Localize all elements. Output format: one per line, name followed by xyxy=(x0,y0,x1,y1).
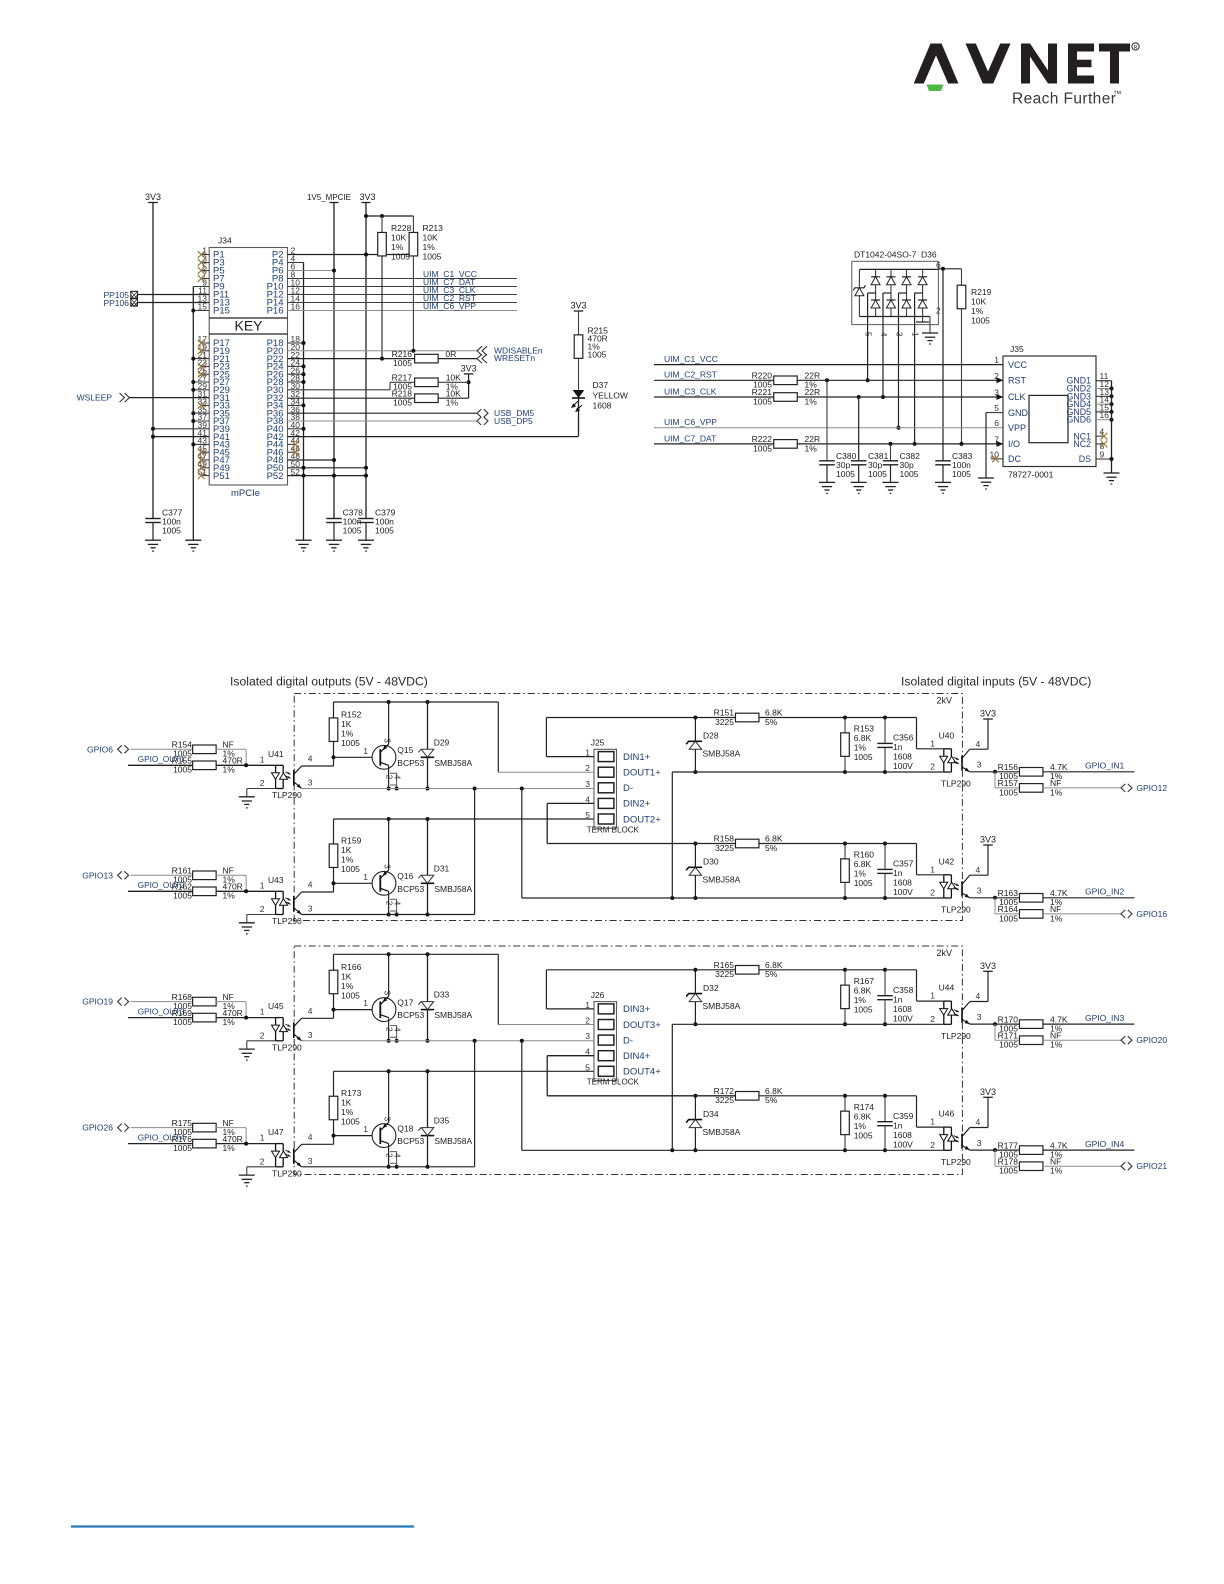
svg-text:5%: 5% xyxy=(765,843,778,853)
svg-text:UIM_C2_RST: UIM_C2_RST xyxy=(664,370,717,380)
svg-text:GND6: GND6 xyxy=(1067,415,1092,425)
resistor R219 10K xyxy=(961,269,963,286)
transistor Q15 BCP53 xyxy=(372,745,396,769)
terminal J26 pin 4 xyxy=(598,1051,614,1061)
net UIM_C1_VCC xyxy=(288,278,518,280)
svg-text:DIN3+: DIN3+ xyxy=(623,1004,651,1015)
svg-text:BCP53: BCP53 xyxy=(397,1136,424,1146)
TVS diode D29 SMBJ58A xyxy=(427,702,429,749)
svg-text:1%: 1% xyxy=(341,729,354,739)
svg-text:5: 5 xyxy=(585,810,590,820)
svg-text:J34: J34 xyxy=(218,236,232,246)
capacitor C378 100n xyxy=(326,518,342,520)
svg-text:P52: P52 xyxy=(267,471,284,482)
svg-text:1n: 1n xyxy=(893,1120,903,1130)
svg-text:1608: 1608 xyxy=(893,752,912,762)
svg-text:1K: 1K xyxy=(341,1097,352,1107)
capacitor C377 100n xyxy=(145,518,161,520)
svg-text:1005: 1005 xyxy=(173,1143,192,1153)
svg-text:3V3: 3V3 xyxy=(980,709,996,719)
svg-text:1K: 1K xyxy=(341,845,352,855)
diode pair column 4 in array xyxy=(922,269,924,276)
svg-text:4: 4 xyxy=(976,865,981,875)
net UIM_C2_RST / resistor R220 22R xyxy=(654,379,774,381)
terminal J25 pin 5 xyxy=(598,814,614,824)
terminal J26 pin 2 xyxy=(598,1020,614,1030)
svg-text:1005: 1005 xyxy=(999,787,1018,797)
svg-text:6.8K: 6.8K xyxy=(854,733,872,743)
svg-text:U43: U43 xyxy=(268,875,284,885)
svg-text:D37: D37 xyxy=(593,380,609,390)
svg-text:1005: 1005 xyxy=(343,526,362,536)
svg-text:R152: R152 xyxy=(341,710,362,720)
wire base node to Q17 xyxy=(334,1009,373,1011)
svg-text:RST: RST xyxy=(1008,376,1027,386)
svg-text:2: 2 xyxy=(260,904,265,914)
wire DIN2+ to input bus 2 xyxy=(547,802,594,804)
svg-text:SMBJ58A: SMBJ58A xyxy=(703,875,741,885)
wire DOUT3+ to output bus 3 xyxy=(498,1024,594,1026)
svg-text:GPIO_IN4: GPIO_IN4 xyxy=(1085,1139,1124,1149)
svg-text:GPIO_IN1: GPIO_IN1 xyxy=(1085,761,1124,771)
resistor R171 NF xyxy=(994,1024,996,1040)
svg-text:Q16: Q16 xyxy=(397,871,413,881)
svg-text:GPIO20: GPIO20 xyxy=(1136,1035,1167,1045)
svg-text:3: 3 xyxy=(308,904,313,914)
zener diode in array xyxy=(858,269,860,287)
wire input bus to opto pin1 xyxy=(899,717,917,719)
svg-text:J35: J35 xyxy=(1010,344,1024,354)
svg-text:C358: C358 xyxy=(893,985,914,995)
svg-text:GPIO12: GPIO12 xyxy=(1136,783,1167,793)
svg-text:GPIO_IN3: GPIO_IN3 xyxy=(1085,1013,1124,1023)
diode array D36 DT1042-04SO-7 body xyxy=(852,261,939,324)
svg-text:1%: 1% xyxy=(805,443,818,453)
svg-text:TLP290: TLP290 xyxy=(941,1157,971,1167)
capacitor C379 100n xyxy=(358,518,374,520)
net UIM_C3_CLK xyxy=(288,294,518,296)
svg-text:R159: R159 xyxy=(341,836,362,846)
TVS diode D35 SMBJ58A xyxy=(427,1071,429,1127)
svg-text:0R: 0R xyxy=(445,349,456,359)
svg-text:1005: 1005 xyxy=(999,913,1018,923)
svg-text:3V3: 3V3 xyxy=(980,961,996,971)
svg-text:D34: D34 xyxy=(703,1109,719,1119)
svg-text:1608: 1608 xyxy=(893,1130,912,1140)
wire 3V3 to pullups R228 R213 xyxy=(366,215,413,217)
wire P4 stub to bus xyxy=(288,262,304,264)
svg-text:1K: 1K xyxy=(341,971,352,981)
resistor R152 1K xyxy=(333,702,335,718)
resistor R164 NF xyxy=(994,898,996,914)
ground under J35 bus xyxy=(1104,473,1120,484)
svg-text:SMBJ58A: SMBJ58A xyxy=(434,758,472,768)
svg-text:YELLOW: YELLOW xyxy=(593,391,628,401)
resistor R165 6.8K series xyxy=(735,966,759,975)
ground under J35 pin5 xyxy=(978,478,994,489)
svg-text:Q15: Q15 xyxy=(397,745,413,755)
svg-text:1005: 1005 xyxy=(854,752,873,762)
svg-text:3: 3 xyxy=(308,778,313,788)
svg-text:2: 2 xyxy=(930,1140,935,1150)
svg-text:4: 4 xyxy=(976,1117,981,1127)
svg-text:TLP290: TLP290 xyxy=(941,905,971,915)
svg-text:1005: 1005 xyxy=(162,526,181,536)
svg-text:1%: 1% xyxy=(391,242,404,252)
svg-text:3: 3 xyxy=(383,991,392,996)
svg-text:GPIO21: GPIO21 xyxy=(1136,1161,1167,1171)
Avnet logo registered mark xyxy=(1132,43,1139,50)
svg-text:1005: 1005 xyxy=(753,396,772,406)
resistor R163 4.7K xyxy=(995,897,1020,899)
resistor R154 NF xyxy=(131,748,193,750)
ground under C377 xyxy=(145,540,161,551)
resistor R217 10K xyxy=(288,389,391,391)
svg-text:3V3: 3V3 xyxy=(461,363,477,373)
capacitor C359 1n 100V xyxy=(884,1096,886,1122)
svg-text:1: 1 xyxy=(260,1133,265,1143)
svg-text:DOUT3+: DOUT3+ xyxy=(623,1020,661,1031)
wire DIN3+ to input bus 3 xyxy=(546,1008,594,1010)
wire input bottom row 1 xyxy=(672,771,944,773)
svg-text:5%: 5% xyxy=(765,1095,778,1105)
svg-text:SMBJ58A: SMBJ58A xyxy=(703,1001,741,1011)
svg-text:1n: 1n xyxy=(893,868,903,878)
svg-text:1%: 1% xyxy=(1050,1166,1063,1176)
svg-text:1005: 1005 xyxy=(173,1017,192,1027)
ground for diode array pin2 xyxy=(922,317,924,323)
wire output top bus xyxy=(334,818,595,820)
wire WSLEEP to P31 xyxy=(130,397,210,399)
svg-text:1: 1 xyxy=(363,872,368,882)
svg-text:1%: 1% xyxy=(341,855,354,865)
svg-text:D35: D35 xyxy=(434,1116,450,1126)
svg-text:1005: 1005 xyxy=(753,443,772,453)
svg-text:6.8K: 6.8K xyxy=(854,1111,872,1121)
svg-text:R166: R166 xyxy=(341,962,362,972)
optocoupler U42 phototransistor xyxy=(961,881,963,896)
wire right ground bus xyxy=(303,263,305,541)
svg-text:1%: 1% xyxy=(854,995,867,1005)
net UIM_C2_RST xyxy=(288,302,518,304)
wire D- down to output channel 4 row xyxy=(474,1041,476,1167)
svg-text:1005: 1005 xyxy=(341,864,360,874)
svg-text:GPIO13: GPIO13 xyxy=(82,870,113,880)
resistor R228 xyxy=(381,216,383,233)
TVS diode D32 SMBJ58A xyxy=(694,970,696,994)
svg-text:10K: 10K xyxy=(391,233,406,243)
svg-text:1: 1 xyxy=(363,1124,368,1134)
resistor R157 NF xyxy=(994,772,996,788)
svg-text:1: 1 xyxy=(363,998,368,1008)
svg-text:GPIO16: GPIO16 xyxy=(1136,909,1167,919)
svg-text:6: 6 xyxy=(994,418,999,428)
svg-text:TERM BLOCK: TERM BLOCK xyxy=(587,825,640,834)
net WRESETn xyxy=(477,354,487,363)
svg-text:SMBJ58A: SMBJ58A xyxy=(703,749,741,759)
svg-text:SMBJ58A: SMBJ58A xyxy=(434,884,472,894)
svg-text:1%: 1% xyxy=(223,1143,236,1153)
wire P50 to 3V3 rail xyxy=(288,467,367,469)
resistor R218 10K xyxy=(288,397,415,399)
svg-text:GPIO26: GPIO26 xyxy=(82,1123,113,1133)
svg-text:1n: 1n xyxy=(893,742,903,752)
svg-text:1V5_MPCIE: 1V5_MPCIE xyxy=(307,193,351,202)
svg-text:100V: 100V xyxy=(893,1013,913,1023)
svg-text:J25: J25 xyxy=(591,738,605,748)
svg-text:3V3: 3V3 xyxy=(145,192,161,202)
svg-text:D-: D- xyxy=(623,783,633,794)
svg-text:1%: 1% xyxy=(971,306,984,316)
net UIM_C1_VCC to J35 xyxy=(654,364,1003,366)
svg-text:DIN2+: DIN2+ xyxy=(623,799,651,810)
wire U46 emitter to junction xyxy=(970,1149,995,1151)
wire output top bus xyxy=(334,1070,595,1072)
svg-text:1: 1 xyxy=(994,355,999,365)
svg-text:R153: R153 xyxy=(854,724,875,734)
Avnet logo green accent xyxy=(927,85,944,92)
no-connect marks J34 lower-left pins xyxy=(201,342,209,344)
wire U40 emitter to junction xyxy=(970,771,995,773)
wire Q16 collector to common row xyxy=(388,891,390,914)
Avnet logo wordmark xyxy=(914,44,1130,84)
optocoupler U44 phototransistor xyxy=(961,1008,963,1023)
wire U44 emitter to junction xyxy=(970,1023,995,1025)
svg-text:D28: D28 xyxy=(703,731,719,741)
TVS diode D34 SMBJ58A xyxy=(694,1096,696,1120)
resistor R168 NF xyxy=(131,1001,193,1003)
no-connect marks P44 P46 xyxy=(288,443,296,445)
transistor Q17 BCP53 xyxy=(372,998,396,1022)
svg-text:2: 2 xyxy=(930,1014,935,1024)
svg-text:2: 2 xyxy=(384,1027,393,1032)
svg-text:1005: 1005 xyxy=(173,765,192,775)
optocoupler U47 phototransistor xyxy=(293,1148,295,1164)
connector J35 78727-0001 body xyxy=(1003,356,1096,467)
wire Q17 collector to common row xyxy=(388,1018,390,1041)
resistor R158 6.8K series xyxy=(735,839,759,848)
svg-text:5: 5 xyxy=(585,1062,590,1072)
svg-text:R160: R160 xyxy=(854,850,875,860)
svg-text:UIM_C3_CLK: UIM_C3_CLK xyxy=(664,386,717,396)
svg-text:VCC: VCC xyxy=(1008,360,1028,370)
svg-text:3: 3 xyxy=(383,738,392,743)
SIM card symbol inside J35 xyxy=(1029,395,1068,442)
svg-text:UIM_C6_VPP: UIM_C6_VPP xyxy=(423,301,476,311)
svg-text:BCP53: BCP53 xyxy=(397,758,424,768)
wire U47 pin4 to base node xyxy=(302,1143,334,1145)
svg-text:CLK: CLK xyxy=(1008,392,1026,402)
svg-text:SMBJ58A: SMBJ58A xyxy=(434,1136,472,1146)
resistor R177 4.7K xyxy=(995,1149,1020,1151)
svg-text:2: 2 xyxy=(930,888,935,898)
svg-text:1%: 1% xyxy=(223,765,236,775)
svg-text:3: 3 xyxy=(977,1012,982,1022)
svg-text:4: 4 xyxy=(976,991,981,1001)
svg-text:C359: C359 xyxy=(893,1111,914,1121)
svg-text:3: 3 xyxy=(585,779,590,789)
svg-text:DS: DS xyxy=(1079,454,1091,464)
wire Q17 emitter to top bus xyxy=(388,954,390,996)
svg-text:1%: 1% xyxy=(223,1017,236,1027)
optocoupler U43 phototransistor xyxy=(293,896,295,912)
ground under C378 xyxy=(326,540,342,551)
net UIM_C7_DAT / resistor R222 22R xyxy=(654,443,774,445)
svg-text:1005: 1005 xyxy=(854,878,873,888)
net UIM_C6_VPP xyxy=(654,427,1003,429)
transistor Q18 BCP53 xyxy=(372,1124,396,1148)
svg-text:SMBJ58A: SMBJ58A xyxy=(434,1010,472,1020)
wire D- common row box2 xyxy=(302,1040,594,1042)
svg-text:1005: 1005 xyxy=(999,1040,1018,1050)
svg-text:TERM BLOCK: TERM BLOCK xyxy=(587,1078,640,1087)
svg-text:TLP290: TLP290 xyxy=(272,1042,302,1052)
wire D- down to input bottom row 2 xyxy=(521,789,523,899)
svg-text:GPIO_IN2: GPIO_IN2 xyxy=(1085,887,1124,897)
svg-text:6.8K: 6.8K xyxy=(854,985,872,995)
footer rule xyxy=(71,1525,414,1527)
svg-text:1005: 1005 xyxy=(341,990,360,1000)
resistor R175 NF xyxy=(131,1127,193,1129)
svg-text:J26: J26 xyxy=(591,990,605,1000)
svg-text:1: 1 xyxy=(930,738,935,748)
terminal J26 pin 3 xyxy=(598,1035,614,1045)
resistor R172 6.8K series xyxy=(735,1092,759,1101)
resistor R153 6.8K shunt xyxy=(844,718,846,733)
svg-text:1005: 1005 xyxy=(393,358,412,368)
svg-text:100V: 100V xyxy=(893,1139,913,1149)
wire J34 left ground bus xyxy=(192,287,194,541)
svg-text:1%: 1% xyxy=(1050,787,1063,797)
svg-text:1005: 1005 xyxy=(952,469,971,479)
svg-text:P51: P51 xyxy=(213,471,230,482)
svg-text:DOUT2+: DOUT2+ xyxy=(623,814,661,825)
diode array top bus xyxy=(859,268,938,270)
wire Q15 collector to common row xyxy=(388,765,390,788)
svg-text:4: 4 xyxy=(308,1006,313,1016)
svg-text:100V: 100V xyxy=(893,887,913,897)
wire Q16 emitter to top bus xyxy=(388,819,390,870)
isolation box 1 dashed border xyxy=(294,694,962,921)
capacitor C381 30p xyxy=(858,397,860,461)
net UIM_C6_VPP xyxy=(288,310,518,312)
svg-text:3: 3 xyxy=(585,1031,590,1041)
svg-text:Q17: Q17 xyxy=(397,997,413,1007)
no-connect marks J34 left upper pins 1-7 xyxy=(201,254,209,256)
svg-text:3: 3 xyxy=(383,864,392,869)
capacitor C357 1n 100V xyxy=(884,844,886,870)
wire U43 pin4 to base node xyxy=(302,891,334,893)
wire U45 pin4 to base node xyxy=(302,1017,334,1019)
svg-text:U42: U42 xyxy=(939,856,955,866)
svg-text:6.8K: 6.8K xyxy=(854,859,872,869)
resistor R160 6.8K shunt xyxy=(844,844,846,859)
svg-text:3V3: 3V3 xyxy=(980,835,996,845)
svg-text:5: 5 xyxy=(994,403,999,413)
capacitor C382 30p xyxy=(890,444,892,461)
svg-text:1%: 1% xyxy=(1050,1040,1063,1050)
resistor R215 470R xyxy=(578,311,580,335)
svg-text:1: 1 xyxy=(930,864,935,874)
capacitor C358 1n 100V xyxy=(884,970,886,996)
wire J34 left ground bracket pins 9,15 xyxy=(193,286,209,288)
svg-text:D-: D- xyxy=(623,1035,633,1046)
svg-text:R228: R228 xyxy=(391,223,412,233)
svg-text:DOUT4+: DOUT4+ xyxy=(623,1067,661,1078)
wire D- common row xyxy=(302,788,594,790)
svg-text:1005: 1005 xyxy=(868,469,887,479)
svg-text:1%: 1% xyxy=(805,396,818,406)
net WDISABLEn xyxy=(288,350,478,352)
svg-text:BCP53: BCP53 xyxy=(397,884,424,894)
svg-text:1%: 1% xyxy=(854,743,867,753)
svg-text:KEY: KEY xyxy=(234,318,263,334)
svg-text:WSLEEP: WSLEEP xyxy=(77,393,113,403)
wire P11 to PP105 xyxy=(137,294,209,296)
TVS diode D31 SMBJ58A xyxy=(427,819,429,875)
TVS diode D28 SMBJ58A xyxy=(694,718,696,742)
wire diode array pin6 to VCC rail xyxy=(938,268,961,270)
svg-text:4: 4 xyxy=(392,1027,401,1032)
svg-text:Isolated digital outputs (5V -: Isolated digital outputs (5V - 48VDC) xyxy=(230,675,428,689)
svg-text:TLP290: TLP290 xyxy=(941,779,971,789)
svg-text:3225: 3225 xyxy=(715,843,734,853)
svg-text:2: 2 xyxy=(384,775,393,780)
capacitor C356 1n 100V xyxy=(884,718,886,744)
resistor R174 6.8K shunt xyxy=(844,1096,846,1111)
svg-text:TLP290: TLP290 xyxy=(941,1031,971,1041)
svg-text:2kV: 2kV xyxy=(936,696,952,706)
wires diode array columns down to UIM nets xyxy=(867,330,869,380)
svg-text:3225: 3225 xyxy=(715,717,734,727)
svg-text:1005: 1005 xyxy=(971,316,990,326)
ground under right bus xyxy=(296,540,312,551)
svg-text:WRESETn: WRESETn xyxy=(494,353,535,363)
resistor R167 6.8K shunt xyxy=(844,970,846,985)
svg-text:U41: U41 xyxy=(268,749,284,759)
net USB_DM5 xyxy=(288,412,478,414)
wire DIN1+ to input bus 1 xyxy=(546,756,594,758)
svg-text:78727-0001: 78727-0001 xyxy=(1008,470,1054,480)
svg-text:1: 1 xyxy=(260,754,265,764)
svg-text:10K: 10K xyxy=(423,233,438,243)
optocoupler U45 phototransistor xyxy=(293,1022,295,1038)
svg-text:TLP290: TLP290 xyxy=(272,790,302,800)
diode pair column 3 in array xyxy=(906,269,908,276)
ground under C379 xyxy=(358,540,374,551)
svg-text:TLP290: TLP290 xyxy=(272,916,302,926)
wires P39 P41 to 3V3 rail xyxy=(153,428,209,430)
svg-text:1608: 1608 xyxy=(893,878,912,888)
svg-text:3: 3 xyxy=(977,886,982,896)
svg-text:R173: R173 xyxy=(341,1088,362,1098)
svg-text:R174: R174 xyxy=(854,1102,875,1112)
svg-text:C357: C357 xyxy=(893,859,914,869)
svg-text:9: 9 xyxy=(1100,449,1105,459)
terminal J26 pin 5 xyxy=(598,1066,614,1076)
svg-text:1005: 1005 xyxy=(423,252,442,262)
wire LED cathode to P42 row xyxy=(578,398,580,436)
svg-text:2: 2 xyxy=(936,306,941,316)
svg-text:1%: 1% xyxy=(854,869,867,879)
wire output top bus xyxy=(334,701,499,703)
svg-text:R: R xyxy=(1134,45,1138,51)
svg-text:D33: D33 xyxy=(434,990,450,1000)
svg-text:1%: 1% xyxy=(1050,913,1063,923)
svg-text:D31: D31 xyxy=(434,863,450,873)
svg-text:1005: 1005 xyxy=(854,1004,873,1014)
svg-text:4: 4 xyxy=(392,1153,401,1158)
